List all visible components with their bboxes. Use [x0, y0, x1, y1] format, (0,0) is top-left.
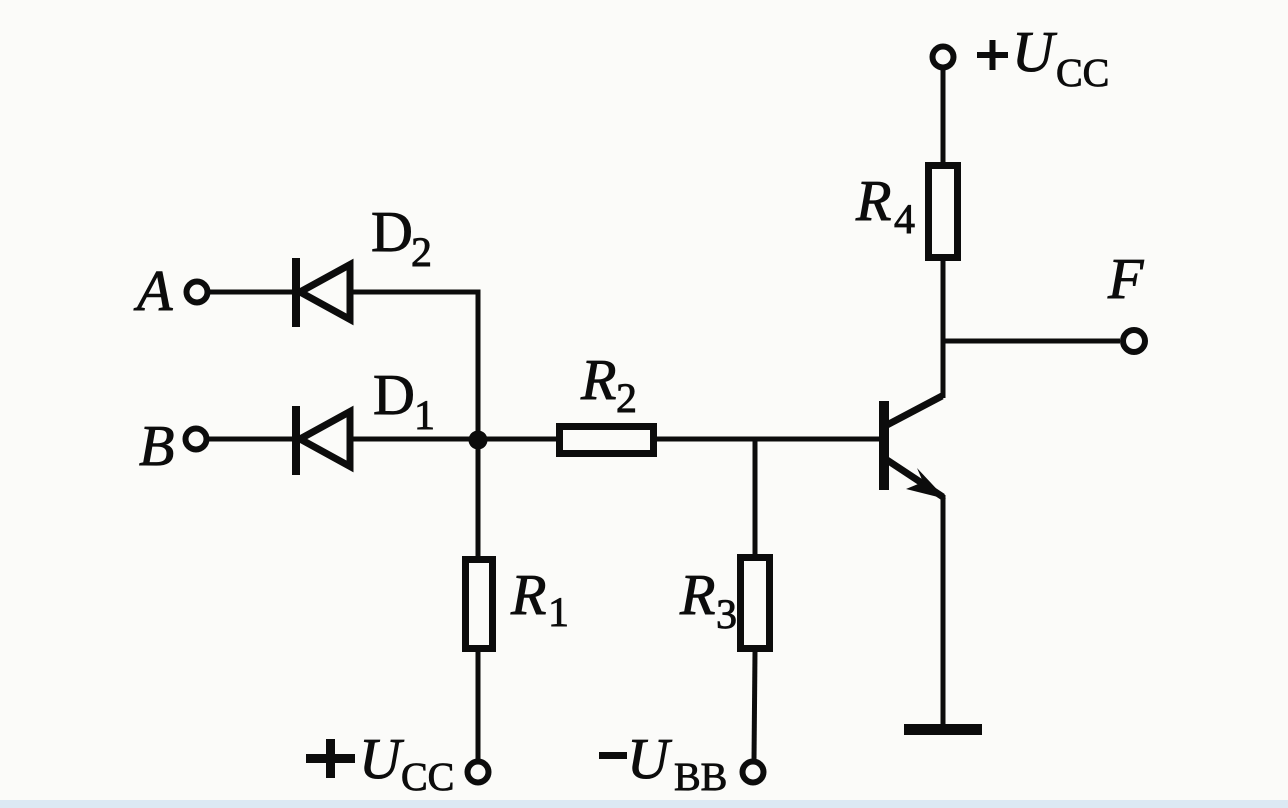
svg-text:1: 1: [414, 393, 435, 439]
resistor R4 body: [929, 166, 958, 258]
wire node down to R1: [476, 440, 481, 557]
terminal B: [186, 429, 207, 450]
svg-text:1: 1: [548, 590, 569, 636]
junction node dot: [469, 431, 488, 450]
wire collector vertical: [941, 261, 946, 398]
wire corner down to node: [476, 290, 481, 440]
wire F output: [943, 339, 1120, 344]
svg-text:R: R: [855, 168, 891, 233]
svg-text:R: R: [510, 562, 546, 627]
diode D1 triangle: [300, 412, 350, 467]
resistor R3 body: [741, 558, 770, 649]
svg-text:U: U: [359, 726, 405, 791]
diode D2 cathode bar: [292, 258, 300, 327]
svg-text:R: R: [580, 347, 616, 412]
transistor Q emitter arrowhead: [906, 468, 946, 499]
svg-text:3: 3: [716, 592, 737, 638]
svg-text:2: 2: [616, 376, 637, 422]
terminal +Ucc bottom: [468, 762, 489, 783]
svg-text:D: D: [371, 199, 413, 264]
wire D1 to node and R2: [350, 437, 556, 442]
label +Ucc top: plus sign: [977, 52, 1008, 58]
diode D2 triangle: [300, 265, 350, 320]
transistor Q collector diagonal: [887, 396, 942, 425]
bottom blue strip: [0, 800, 1288, 808]
svg-text:U: U: [1012, 19, 1058, 84]
svg-text:CC: CC: [1056, 50, 1109, 95]
label +Ucc bottom: plus sign: [306, 754, 355, 763]
wire B to D1 anode: [209, 437, 294, 442]
transistor Q emitter diagonal: [887, 460, 943, 497]
wire emitter vertical: [941, 495, 946, 726]
svg-text:BB: BB: [674, 754, 727, 799]
svg-text:A: A: [133, 258, 173, 323]
svg-text:B: B: [139, 413, 174, 478]
svg-text:R: R: [679, 562, 715, 627]
terminal -Ubb: [743, 762, 764, 783]
svg-text:F: F: [1107, 246, 1144, 311]
svg-text:CC: CC: [401, 754, 454, 799]
resistor R1 body: [466, 560, 493, 649]
terminal A: [187, 282, 208, 303]
wire R3 top: [753, 439, 758, 555]
wire A to D2 anode: [210, 290, 294, 295]
wire D2 to corner: [350, 290, 481, 295]
terminal F: [1123, 330, 1145, 352]
transistor Q base bar: [879, 401, 889, 490]
wire R1 to +Ucc terminal: [476, 652, 481, 760]
wire R4 to +Ucc top terminal: [941, 69, 946, 162]
resistor R2 body: [560, 427, 654, 454]
wire R3 to -Ubb terminal: [754, 652, 755, 760]
svg-text:U: U: [627, 726, 673, 791]
terminal +Ucc top: [933, 47, 954, 68]
diode D1 cathode bar: [292, 406, 300, 475]
svg-text:4: 4: [894, 197, 915, 243]
wire R2 to base: [657, 437, 879, 442]
label -Ubb: minus sign: [599, 752, 627, 759]
svg-text:2: 2: [411, 230, 432, 276]
svg-text:D: D: [373, 362, 415, 427]
ground symbol: [904, 724, 982, 735]
